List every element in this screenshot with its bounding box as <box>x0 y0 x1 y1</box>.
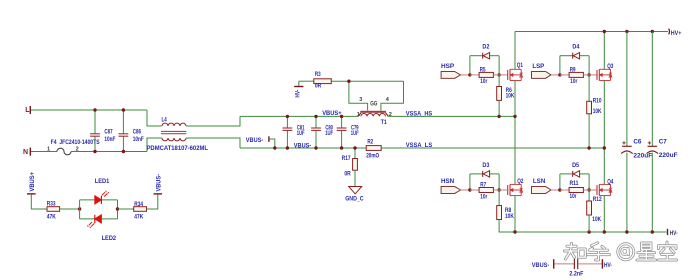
terminal VBUS- snubber <box>532 259 555 269</box>
port HSP <box>441 63 461 78</box>
junction C87 top <box>93 108 96 111</box>
transformer T1 GG <box>357 97 392 126</box>
fuse F4 JFC2410-1400TS <box>47 139 100 155</box>
label VBUS+ <box>322 110 342 117</box>
terminal HV- bottom right <box>667 229 678 237</box>
svg-text:VSSA_HS: VSSA_HS <box>406 111 433 118</box>
wire HV- bottom rail <box>499 231 667 233</box>
junction HV+ Q3 <box>603 30 606 33</box>
svg-text:D2: D2 <box>482 44 489 51</box>
svg-text:Q1: Q1 <box>517 62 523 69</box>
svg-text:20mO: 20mO <box>366 152 379 159</box>
junction Q1 source VSSA_HS <box>513 115 516 118</box>
svg-text:10r: 10r <box>570 78 577 85</box>
junction R10 VSSA_LS <box>587 146 590 149</box>
junction C80 top <box>314 115 317 118</box>
capacitor C6 220uF <box>621 139 652 160</box>
wire R34 to VBUS- <box>147 195 158 209</box>
resistor R34 47K <box>134 201 147 220</box>
svg-text:LED1: LED1 <box>95 178 110 185</box>
junction C81 bottom <box>286 146 289 149</box>
resistor R11 10r <box>560 180 583 200</box>
svg-text:LSP: LSP <box>532 63 544 70</box>
capacitor C87 10nF <box>90 110 115 152</box>
wire gate to Q2 <box>493 189 507 191</box>
diode D2 loop <box>470 44 499 75</box>
svg-text:1UF: 1UF <box>325 130 333 137</box>
inductor L4 common-mode choke <box>161 116 186 141</box>
resistor R8 10K <box>497 190 514 232</box>
junction rail R12 <box>587 230 590 233</box>
svg-text:R9: R9 <box>570 66 576 73</box>
wire VBUS+ rail <box>240 115 358 117</box>
junction VBUS- port <box>273 146 276 149</box>
resistor R10 10K <box>587 75 602 148</box>
watermark 知乎 @星空 <box>565 242 677 260</box>
junction rail Q2 <box>513 230 516 233</box>
terminal HV- top <box>294 81 303 97</box>
resistor R5 10r <box>470 66 494 85</box>
svg-text:VBUS-: VBUS- <box>156 174 163 192</box>
svg-text:PDMCAT18107-602ML: PDMCAT18107-602ML <box>147 145 209 152</box>
LED1 <box>95 178 110 204</box>
svg-text:220uF: 220uF <box>633 152 652 159</box>
terminal HV+ <box>669 29 682 38</box>
junction C87 bottom <box>93 150 96 153</box>
svg-text:0R: 0R <box>315 83 322 90</box>
svg-text:HV+: HV+ <box>671 30 682 37</box>
svg-text:D3: D3 <box>482 162 489 169</box>
junction R3 loop <box>347 80 350 83</box>
svg-text:10nF: 10nF <box>104 136 115 143</box>
capacitor C81 1UF <box>283 116 305 148</box>
svg-text:T1: T1 <box>381 119 387 126</box>
svg-text:2.2nF: 2.2nF <box>569 271 583 278</box>
resistor R12 10K <box>587 190 602 232</box>
svg-text:R10: R10 <box>593 97 602 104</box>
power port VBUS+ left <box>27 172 36 195</box>
svg-text:L4: L4 <box>162 116 167 123</box>
svg-text:HV-: HV- <box>604 262 612 269</box>
junction LED right <box>116 207 119 210</box>
svg-text:10K: 10K <box>506 92 515 99</box>
wire LED to R34 <box>118 208 134 210</box>
svg-text:VBUS-: VBUS- <box>294 142 312 149</box>
resistor R3 0R <box>314 71 332 90</box>
transistor Q2 <box>508 178 524 196</box>
diode D4 loop <box>560 44 589 75</box>
svg-text:D5: D5 <box>572 162 579 169</box>
terminal L <box>25 106 31 114</box>
transistor Q3 <box>597 63 614 81</box>
wire L line <box>31 109 147 111</box>
transistor Q1 <box>508 62 524 81</box>
svg-text:C7: C7 <box>659 138 667 145</box>
junction Q3 gate node <box>587 73 590 76</box>
wire gate to Q3 <box>583 74 597 76</box>
capacitor C79 1UF <box>337 116 359 148</box>
svg-text:1: 1 <box>357 112 360 118</box>
svg-text:10r: 10r <box>480 194 487 201</box>
wire C7 branch <box>651 32 653 233</box>
svg-text:10K: 10K <box>505 213 514 220</box>
ground GND_C <box>345 187 364 203</box>
wire VSSA_HS rail <box>388 115 515 117</box>
port HSN <box>441 178 461 194</box>
junction C81 top <box>286 115 289 118</box>
label VSSA_HS <box>406 111 433 118</box>
svg-text:Q3: Q3 <box>607 63 613 70</box>
junction Q2 gate node <box>497 188 500 191</box>
wire N step up to choke <box>147 138 162 152</box>
power port VBUS- right <box>154 174 163 195</box>
svg-text:R2: R2 <box>367 139 373 146</box>
junction Q1 gate node <box>497 73 500 76</box>
junction rail C7 <box>651 230 654 233</box>
terminal HV- snubber <box>602 259 612 269</box>
junction rail Q4 <box>603 230 606 233</box>
svg-text:C87: C87 <box>104 128 112 135</box>
wire HSP to node <box>461 74 470 76</box>
svg-text:10K: 10K <box>593 108 602 115</box>
wire HV+ rail <box>515 31 668 33</box>
svg-text:47K: 47K <box>47 214 56 221</box>
svg-text:GND_C: GND_C <box>345 195 364 202</box>
wire gate to Q1 <box>493 74 507 76</box>
junction C79 bottom <box>340 146 343 149</box>
port LSN <box>532 178 552 193</box>
svg-text:LSN: LSN <box>533 178 546 185</box>
terminal VBUS- mid <box>246 136 275 148</box>
svg-text:220uF: 220uF <box>659 152 678 159</box>
svg-text:F4 JFC2410-1400TS: F4 JFC2410-1400TS <box>51 139 101 146</box>
junction HSP node <box>468 73 471 76</box>
svg-text:VBUS+: VBUS+ <box>322 110 342 117</box>
svg-text:HSP: HSP <box>441 63 455 70</box>
junction R6 VSSA_HS <box>497 115 500 118</box>
wire choke bottom to VBUS- rail <box>186 138 240 148</box>
capacitor C7 220uF <box>647 138 678 159</box>
junction rail C6 <box>625 230 628 233</box>
svg-text:R34: R34 <box>134 201 143 208</box>
LED2 <box>87 215 116 242</box>
svg-text:10K: 10K <box>592 216 601 223</box>
svg-text:R17: R17 <box>342 155 351 162</box>
svg-text:GG: GG <box>370 100 377 107</box>
resistor R7 10r <box>470 181 494 200</box>
svg-text:R3: R3 <box>315 71 321 78</box>
label PDMCAT18107-602ML <box>147 145 209 152</box>
svg-text:D4: D4 <box>572 44 579 51</box>
svg-text:3: 3 <box>359 97 362 103</box>
svg-text:47K: 47K <box>134 214 143 221</box>
capacitor C86 10nF <box>119 110 144 152</box>
wire R33 to LED junction <box>60 208 80 210</box>
label VSSA_LS <box>406 142 433 149</box>
svg-text:LED2: LED2 <box>102 235 117 242</box>
junction Q4 gate node <box>587 188 590 191</box>
wire VSSA_LS rail <box>381 147 604 149</box>
svg-text:1UF: 1UF <box>297 130 305 137</box>
svg-text:C6: C6 <box>633 139 641 146</box>
junction R17 top <box>353 146 356 149</box>
wire N to fuse <box>31 151 57 153</box>
wire Q3-Q4 chain <box>603 32 605 233</box>
junction C79 top <box>340 115 343 118</box>
capacitor 2.2nF snubber <box>554 259 601 278</box>
wire gate to Q4 <box>583 189 597 191</box>
svg-text:VBUS-: VBUS- <box>246 137 263 144</box>
wire HSN to node <box>461 189 470 191</box>
wire Q1-Q2 chain <box>514 32 516 233</box>
wire LSP to node <box>551 74 560 76</box>
svg-text:HV-: HV- <box>295 90 302 98</box>
wire VBUS- rail <box>240 147 366 149</box>
svg-text:R5: R5 <box>480 66 486 73</box>
svg-text:0R: 0R <box>344 170 351 177</box>
diode D5 loop <box>560 162 589 190</box>
svg-text:10r: 10r <box>480 78 487 85</box>
label VBUS- net <box>294 142 312 149</box>
svg-text:R12: R12 <box>593 196 602 203</box>
junction LED left <box>78 207 81 210</box>
resistor R33 47K <box>47 201 60 221</box>
svg-text:Q2: Q2 <box>517 178 523 185</box>
wire choke top to VBUS+ rail <box>186 116 240 126</box>
junction C86 top <box>122 108 125 111</box>
resistor R6 10K <box>497 75 515 117</box>
resistor R2 20mO <box>366 139 381 160</box>
svg-text:VSSA_LS: VSSA_LS <box>406 142 433 149</box>
svg-text:R11: R11 <box>570 180 579 187</box>
junction C86 bottom <box>122 150 125 153</box>
svg-text:VBUS-: VBUS- <box>532 262 550 269</box>
wire fuse to choke <box>71 151 147 153</box>
wire LED box <box>80 200 118 219</box>
svg-text:10r: 10r <box>570 193 577 200</box>
svg-text:1UF: 1UF <box>351 130 359 137</box>
svg-text:1: 1 <box>47 147 50 153</box>
terminal N <box>23 148 31 156</box>
wire L step down to choke <box>147 110 162 126</box>
svg-text:HV-: HV- <box>670 230 678 237</box>
svg-text:VBUS+: VBUS+ <box>29 172 36 192</box>
resistor R17 0R <box>342 148 358 187</box>
wire LSN to node <box>551 189 560 191</box>
junction C80 bottom <box>314 146 317 149</box>
svg-text:2: 2 <box>389 112 392 118</box>
svg-text:HSN: HSN <box>441 178 454 185</box>
wire C6 branch <box>626 32 628 233</box>
svg-text:R7: R7 <box>480 181 486 188</box>
svg-text:Q4: Q4 <box>607 179 613 186</box>
wire VBUS+ to R33 <box>31 195 47 209</box>
wire HV- to R3 <box>299 80 314 82</box>
svg-text:C86: C86 <box>133 128 141 135</box>
junction HSN node <box>468 188 471 191</box>
junction LSN node <box>558 188 561 191</box>
junction Q3 source VSSA_LS <box>603 146 606 149</box>
transistor Q4 <box>597 179 614 196</box>
svg-text:10nF: 10nF <box>133 136 144 143</box>
junction HV+ C6 <box>625 30 628 33</box>
port LSP <box>532 63 552 78</box>
junction LSP node <box>558 73 561 76</box>
resistor R9 10r <box>560 66 583 85</box>
junction HV+ C7 <box>651 30 654 33</box>
wire R3 to T1 pins loop <box>331 81 403 110</box>
capacitor C80 1UF <box>311 116 333 148</box>
diode D3 loop <box>470 162 499 190</box>
svg-text:R33: R33 <box>47 201 56 208</box>
svg-text:N: N <box>23 149 28 156</box>
svg-text:L: L <box>25 107 30 114</box>
